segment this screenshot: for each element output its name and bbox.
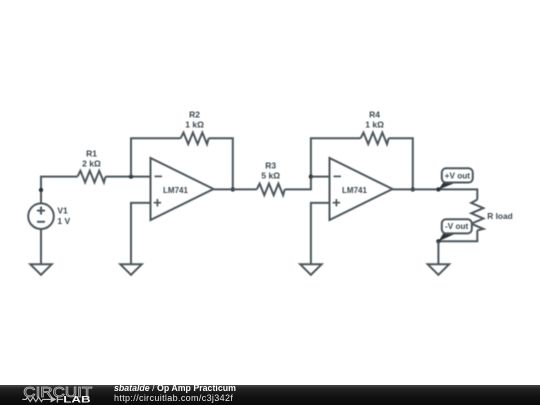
wire feedback U1 left riser [131, 138, 181, 176]
op-amp U1 [151, 158, 214, 220]
ground G4 [428, 264, 449, 275]
voltage source V1 [28, 203, 54, 229]
wire V1 bottom to ground [40, 229, 42, 264]
wire R3 to U2 riser [285, 138, 361, 189]
ground G3 [300, 264, 321, 275]
node junction U2 output / feedback [411, 187, 415, 191]
wire R1 to op-amp U1 minus input [106, 176, 151, 178]
ground G2 [120, 264, 141, 275]
resistor R4 [361, 133, 389, 145]
node V1 top terminal [39, 188, 43, 192]
node junction U2 minus input [309, 174, 313, 178]
logo diode [51, 396, 57, 402]
svg-text:R2: R2 [189, 110, 200, 120]
flag -V out [438, 219, 471, 241]
resistor R3 [257, 184, 285, 196]
wire U1 plus input to ground [131, 203, 151, 264]
flag +V out [438, 168, 472, 189]
ground G1 [30, 264, 51, 275]
svg-text:R1: R1 [86, 149, 97, 159]
svg-text:LM741: LM741 [163, 186, 188, 195]
wire feedback U2 right riser to output [389, 138, 413, 189]
resistor R load [471, 200, 483, 231]
wire R load bottom to -V out node [438, 230, 477, 241]
svg-text:R3: R3 [265, 161, 276, 171]
node junction U1 output / feedback [231, 187, 235, 191]
svg-text:-V out: -V out [445, 222, 468, 231]
logo CIRCUIT LAB [0, 385, 110, 405]
wire U1 output to R3 [214, 188, 257, 190]
svg-text:1 kΩ: 1 kΩ [185, 119, 204, 129]
node +V out attach [436, 187, 440, 191]
svg-text:LM741: LM741 [342, 186, 367, 195]
wire -V out node to ground [437, 241, 439, 264]
node junction R1 / feedback [129, 174, 133, 178]
wire U2 output to R load top [393, 189, 478, 199]
svg-text:+V out: +V out [445, 171, 471, 180]
svg-text:2 kΩ: 2 kΩ [82, 158, 101, 168]
logo resistor squiggle [22, 397, 50, 401]
resistor R1 [78, 171, 106, 183]
footer bar [0, 385, 540, 405]
wire U2 minus input [311, 176, 330, 178]
wire V1 top to R1 [41, 177, 78, 204]
footer title [114, 384, 236, 393]
svg-text:5 kΩ: 5 kΩ [261, 171, 280, 181]
svg-text:V1: V1 [57, 205, 68, 215]
node -V out attach [436, 239, 440, 243]
wire feedback U1 right riser to output [209, 138, 233, 189]
op-amp U2 [330, 158, 393, 220]
svg-text:R load: R load [487, 211, 512, 221]
svg-text:1 V: 1 V [57, 216, 70, 226]
svg-text:1 kΩ: 1 kΩ [365, 119, 384, 129]
svg-text:LAB: LAB [63, 394, 90, 405]
footer url [114, 394, 233, 403]
wire U2 plus input to ground [311, 203, 330, 264]
resistor R2 [181, 133, 209, 145]
svg-text:R4: R4 [369, 110, 380, 120]
